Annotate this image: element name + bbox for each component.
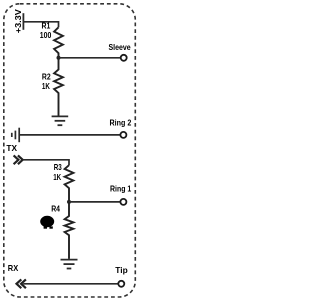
RX signal arrow xyxy=(17,279,26,288)
node junction R1/R2/Sleeve xyxy=(57,56,61,60)
wire to Sleeve xyxy=(59,57,121,59)
svg-text:1K: 1K xyxy=(53,172,61,182)
TX signal arrow xyxy=(14,155,23,164)
svg-text:Sleeve: Sleeve xyxy=(109,42,131,52)
wire ground to Ring 2 xyxy=(20,134,120,136)
node junction R3/R4/Ring 1 xyxy=(67,200,71,204)
svg-text:R4: R4 xyxy=(51,203,60,213)
svg-text:Ring 2: Ring 2 xyxy=(110,117,132,127)
svg-text:1K: 1K xyxy=(42,81,50,91)
ground (sideways) on Ring 2 line xyxy=(12,128,19,143)
wire TX to R3 xyxy=(23,160,69,165)
R4 body blob xyxy=(40,216,54,227)
svg-text:TX: TX xyxy=(6,143,17,153)
module boundary (dashed) xyxy=(4,4,136,297)
svg-text:+3.3V: +3.3V xyxy=(13,9,23,33)
svg-text:R3: R3 xyxy=(54,162,62,172)
wire RX to Tip xyxy=(23,283,118,285)
resistor R2 xyxy=(54,58,63,116)
resistor R4 xyxy=(65,202,74,259)
svg-text:Tip: Tip xyxy=(115,265,127,275)
wire +3.3V to R1 xyxy=(24,22,59,28)
ground below R2 xyxy=(52,116,69,125)
resistor R3 xyxy=(65,165,74,202)
svg-text:RX: RX xyxy=(8,263,19,273)
svg-text:Ring 1: Ring 1 xyxy=(110,184,132,194)
svg-text:100: 100 xyxy=(40,30,52,40)
ground below R4 xyxy=(61,260,78,269)
terminal Ring 1 xyxy=(120,199,126,205)
wire to Ring 1 xyxy=(69,201,120,203)
svg-text:R2: R2 xyxy=(42,72,51,82)
power +3.3V rail bar xyxy=(22,13,24,30)
resistor R1 xyxy=(54,27,63,58)
terminal Tip xyxy=(118,281,124,287)
terminal Ring 2 xyxy=(120,132,126,138)
terminal Sleeve xyxy=(121,55,127,61)
